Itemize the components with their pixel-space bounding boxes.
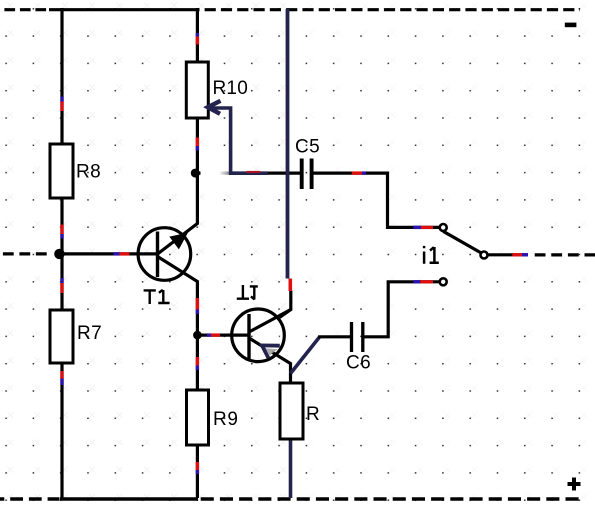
switch i1 bottom contact terminal: [440, 278, 447, 285]
wire: node B to T2 base: [197, 334, 249, 337]
transistor T1 base bar: [156, 232, 159, 278]
wire: T2 collector diagonal: [249, 310, 291, 333]
white highlight inside T2: [261, 333, 279, 340]
current marker: right of C5: [352, 171, 366, 174]
node A junction dot (R10/C5/T1): [191, 169, 200, 178]
positive supply rail (bottom, dashed): [0, 497, 581, 500]
current marker: below R7: [60, 371, 63, 385]
current marker: above R8 (blue/red): [60, 97, 63, 112]
wire: to C6 left plate: [318, 335, 350, 338]
svg-text:R8: R8: [76, 162, 101, 183]
wire: node A to C5: [197, 172, 301, 175]
current marker: T1 collector stub: [196, 298, 199, 314]
transistor T1 emitter arrow: [172, 235, 186, 248]
negative supply rail (top, dashed): [4, 8, 580, 11]
output rail (right middle, dashed): [535, 253, 595, 256]
svg-text:R7: R7: [77, 323, 102, 344]
wire: switch pole to output rail: [488, 253, 528, 256]
wire: R8 to input node: [60, 196, 63, 255]
potentiometer R10 body: [186, 62, 208, 118]
wire: R bottom to positive rail (navy): [289, 439, 293, 498]
current marker: top of T2 collector stub: [288, 279, 292, 292]
input rail (left middle, dashed): [3, 252, 49, 255]
wire: left branch top (rail to R8): [60, 8, 63, 146]
current marker: below R9: [196, 462, 199, 474]
svg-text:C6: C6: [346, 353, 371, 374]
svg-text:R: R: [306, 404, 320, 425]
mouse cursor body (white fill): [262, 344, 281, 359]
label T2 (rendered upside-down): [237, 285, 258, 300]
label i1: [424, 246, 439, 264]
resistor R: [280, 383, 303, 439]
capacitor C6 plates: [352, 322, 363, 352]
wire: bottom rail solid segment: [60, 497, 198, 500]
current marker: T1 base wire: [114, 252, 130, 255]
resistor R8: [50, 144, 73, 198]
current marker: switch top contact wire: [413, 226, 433, 229]
svg-text:R9: R9: [213, 409, 239, 430]
wire: T2 emitter diagonal down to R: [249, 338, 291, 385]
potentiometer R10 wiper arrow (navy open chevron): [208, 101, 221, 114]
wire: top rail solid segment between left and middle branches: [49, 8, 200, 11]
svg-text:C5: C5: [295, 137, 320, 158]
switch i1 pole terminal: [481, 252, 488, 259]
wire: R7 to bottom rail: [60, 361, 63, 498]
switch i1 top contact terminal: [440, 224, 447, 231]
node: input node junction dot: [54, 249, 64, 259]
current marker: above input node: [60, 225, 63, 239]
battery minus sign: [565, 23, 577, 28]
transistor T2 base bar: [247, 314, 250, 360]
switch i1 lever: [443, 231, 480, 252]
mouse cursor shadow (grey): [266, 348, 278, 355]
wire: long feedback wire from top rail down (navy): [286, 9, 290, 279]
transistor T2 circle: [232, 309, 285, 362]
current marker: above R9: [196, 357, 199, 370]
current marker: below input node: [60, 278, 63, 293]
label T1: [144, 290, 170, 304]
wire: C5 to switch top contact: [313, 173, 440, 227]
svg-text:R10: R10: [213, 78, 248, 99]
current marker: on navy wiper wire: [247, 171, 261, 173]
wire: input node to R7: [60, 253, 63, 312]
wire: T1 collector down to node B: [158, 257, 198, 337]
wire: middle branch top (rail to R10): [196, 8, 199, 64]
wire: input node to T1 base: [59, 252, 158, 255]
faded highlight over wire right of node A: [201, 167, 242, 180]
resistor R9: [187, 390, 209, 445]
mouse cursor outline (navy): [262, 345, 280, 358]
wire: R9 to bottom rail: [196, 443, 199, 498]
transistor T1 circle: [138, 228, 191, 281]
wire: R10 to node A: [196, 116, 199, 174]
wire: black stub to T2 collector: [280, 291, 291, 318]
current marker: below R10: [196, 138, 199, 151]
node B junction dot (T1/R9/T2): [193, 331, 202, 340]
current marker: switch bottom contact wire: [413, 280, 433, 283]
resistor R7: [50, 310, 73, 363]
current marker: T2 base wire: [207, 333, 220, 336]
wire: C6 to switch bottom contact: [364, 282, 441, 337]
wire: emitter tap to C6 (navy diagonal): [291, 337, 320, 374]
wire: node A down to T1 emitter: [158, 172, 198, 254]
wire: node B to R9: [196, 334, 199, 392]
current marker: top of R10 branch: [196, 33, 199, 45]
battery plus sign: [568, 478, 581, 491]
capacitor C5 plates: [302, 159, 312, 190]
wire: wiper to C5 node (navy elbow): [208, 108, 269, 173]
current marker: output rail wire: [512, 253, 528, 256]
